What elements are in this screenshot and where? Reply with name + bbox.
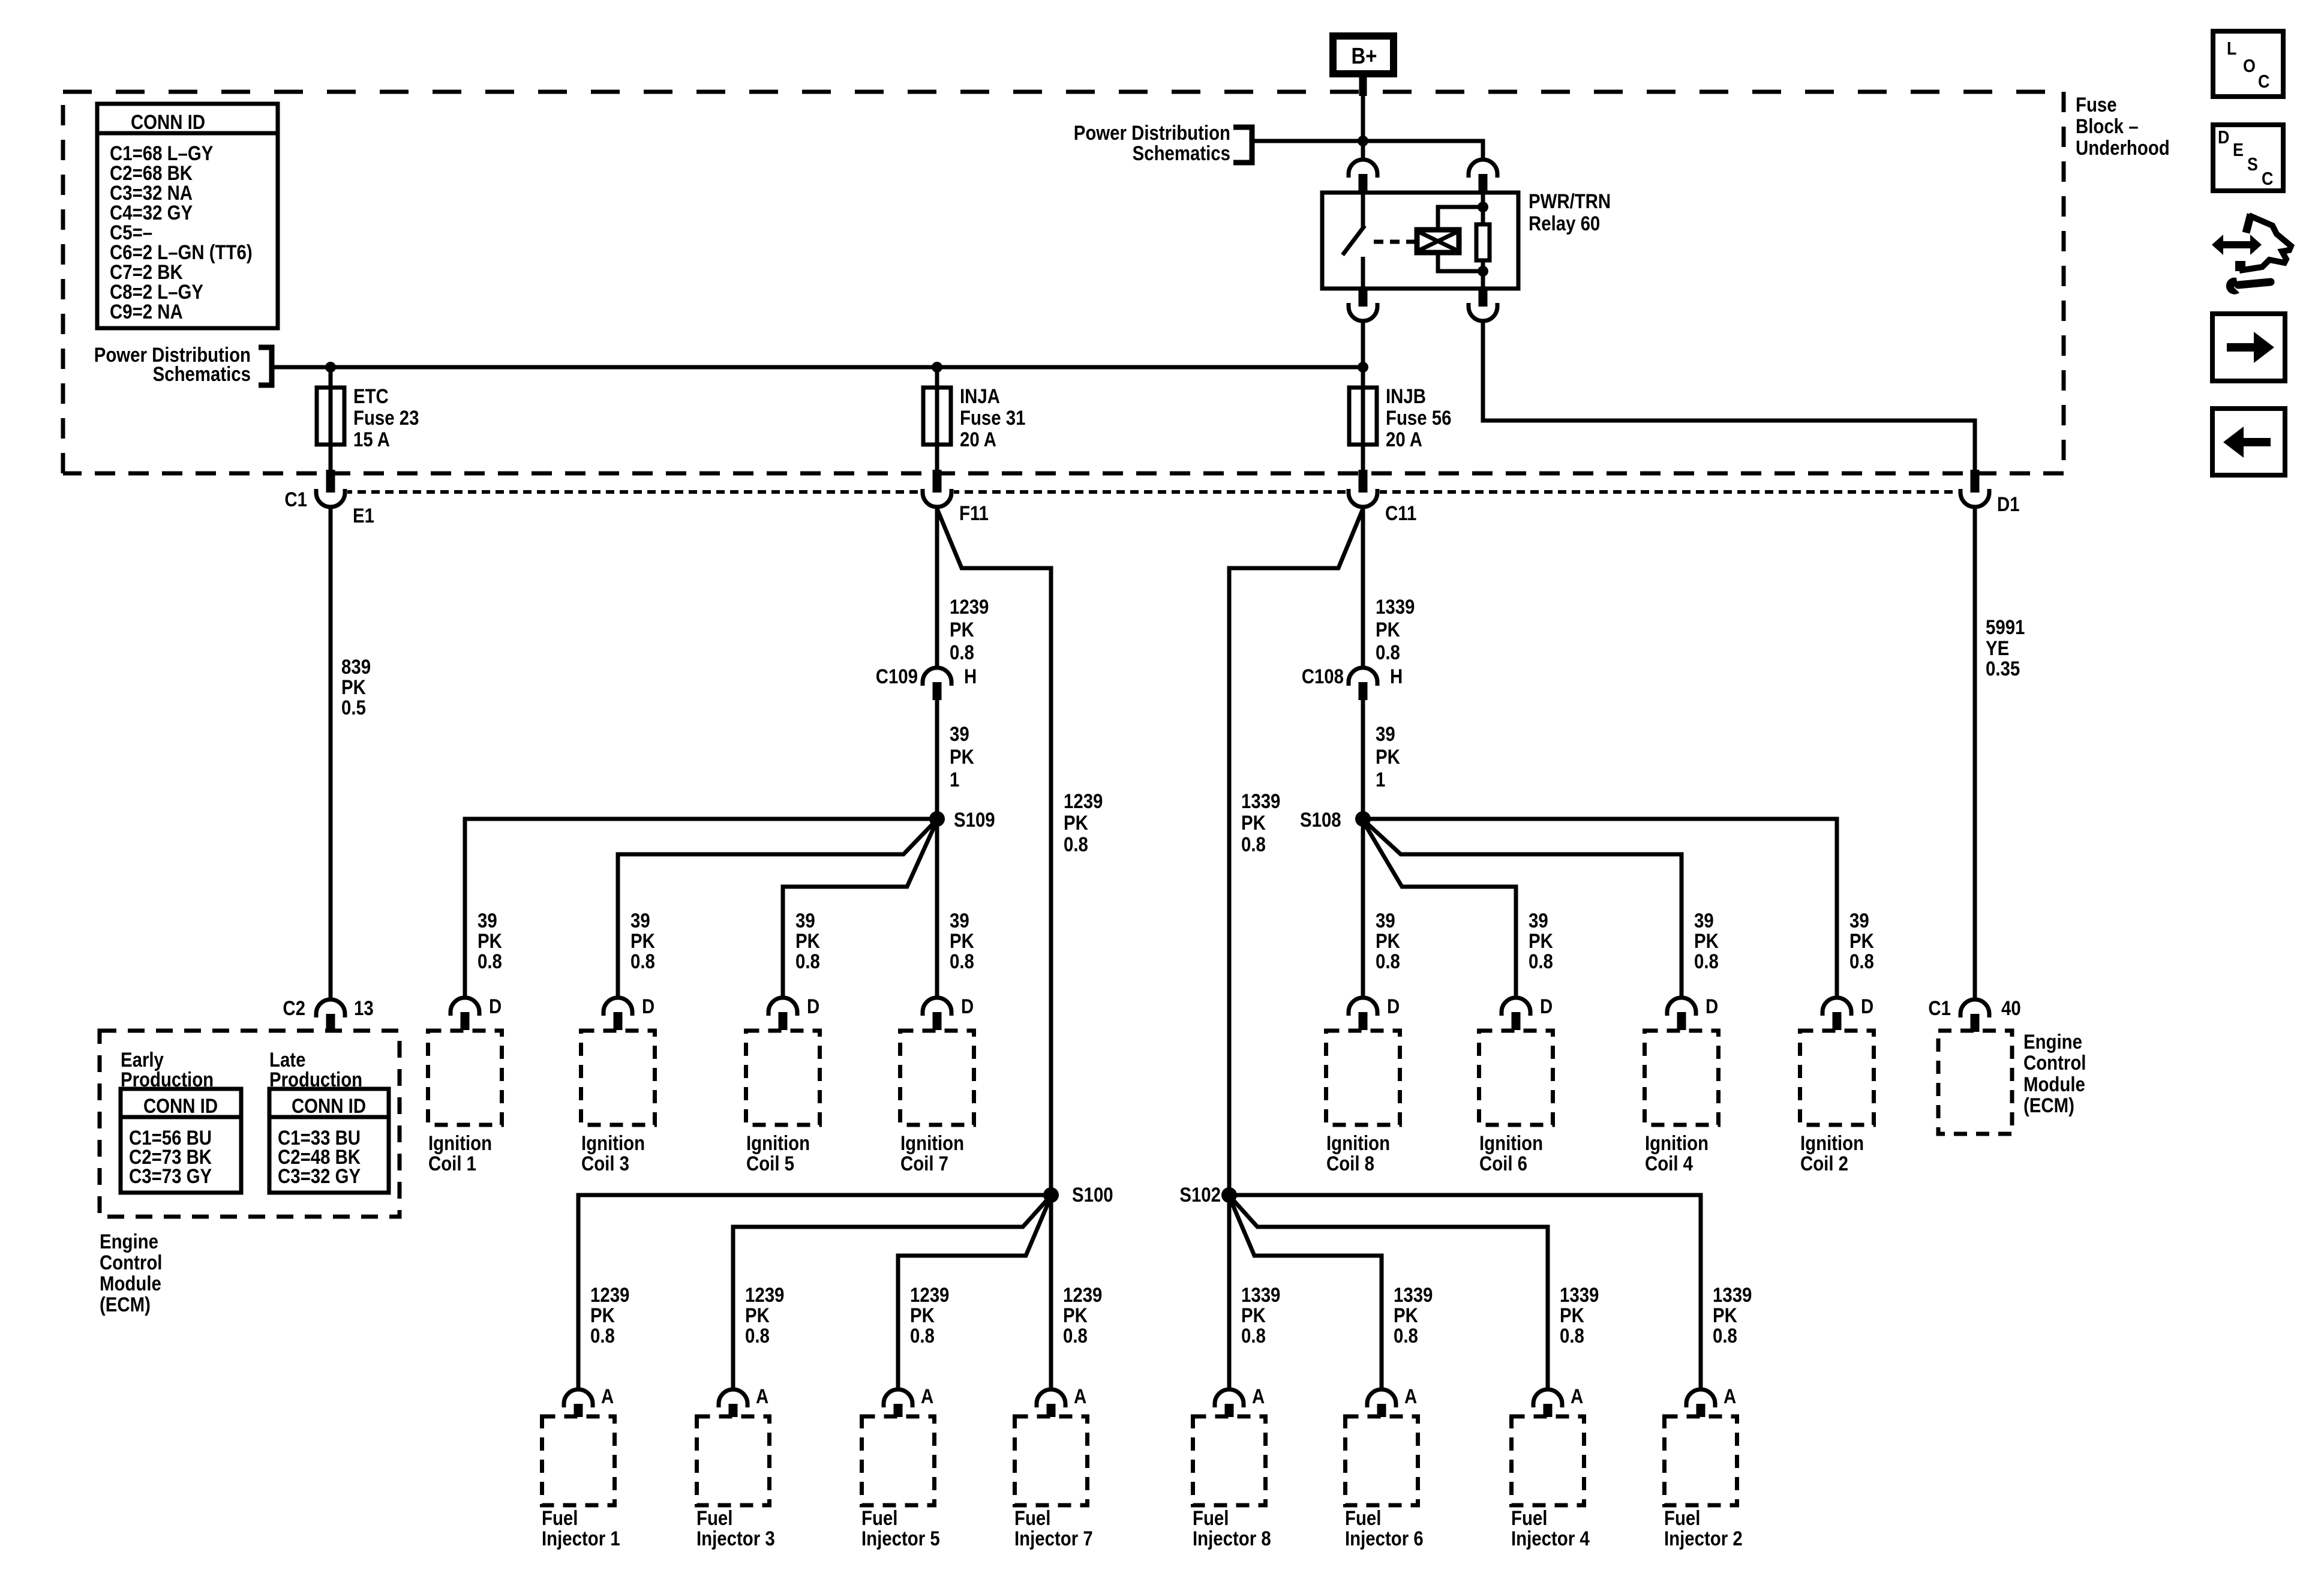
wire 39 PK 1 C109 to S109 [935,700,939,819]
connector relay pin bottom-left [1349,289,1377,321]
svg-text:D: D [807,995,819,1018]
icon arrow left box [2212,409,2285,475]
svg-text:D: D [1706,995,1718,1018]
connector C108 pin H [1349,668,1377,700]
ignition coil 4 [1645,1031,1719,1125]
wire S109 to ignition coil 7 [935,819,939,998]
harness connector dotted line [316,490,1960,494]
svg-text:Ignition: Ignition [1479,1131,1543,1155]
connector C11 white backing [1346,485,1380,509]
svg-text:Coil 4: Coil 4 [1645,1152,1693,1175]
svg-text:39: 39 [950,722,969,746]
svg-text:39: 39 [1376,909,1395,932]
fuel injector 3 [697,1416,770,1505]
svg-text:5991: 5991 [1986,616,2025,639]
resistor (relay suppression) [1476,193,1490,289]
svg-text:0.8: 0.8 [950,641,974,664]
wire S100 to fuel injector 3 [733,1197,1050,1389]
svg-text:Coil 7: Coil 7 [900,1152,948,1175]
connector fuel injector 4 pin A [1533,1389,1562,1417]
wire coil to resistor bottom [1438,253,1483,271]
icon LOC box [2213,31,2283,97]
fuel injector 4 [1512,1416,1584,1505]
engine control module (ECM) dashed box [100,1031,400,1217]
svg-text:Schematics: Schematics [153,362,251,386]
wire 1339 PK 0.8 C11 to C108 [1361,507,1365,668]
wire S100 to fuel injector 5 [898,1199,1050,1389]
svg-text:Power Distribution: Power Distribution [1074,121,1230,145]
svg-text:Fuse 31: Fuse 31 [960,406,1025,430]
svg-text:1239: 1239 [910,1283,949,1307]
svg-text:Fuse 56: Fuse 56 [1386,406,1451,430]
svg-text:Injector 2: Injector 2 [1664,1527,1743,1550]
svg-text:0.8: 0.8 [1064,833,1088,856]
svg-text:Fuel: Fuel [1014,1506,1050,1530]
wire label 39 PK 0.8 coil 3 [630,909,655,973]
svg-text:PK: PK [1713,1304,1737,1327]
wire label 1339 PK 0.8 injector 8 [1241,1283,1280,1347]
svg-text:D: D [1387,995,1400,1018]
svg-text:Engine: Engine [100,1230,158,1253]
svg-text:Injector 6: Injector 6 [1345,1527,1424,1550]
svg-text:CONN ID: CONN ID [292,1094,366,1118]
svg-text:39: 39 [1529,909,1548,932]
svg-text:L: L [2227,38,2236,59]
svg-text:A: A [1252,1385,1265,1408]
wire 1239 PK 0.8 branch F11 to S100 [937,509,1051,1195]
svg-text:PK: PK [1694,929,1719,953]
relay coil [1417,230,1459,253]
icon wiring repair (arrow, connector, wrench) [2212,214,2291,295]
splice S108 [1355,811,1371,827]
svg-text:Ignition: Ignition [428,1131,492,1155]
svg-text:1339: 1339 [1241,789,1280,813]
svg-text:Coil 1: Coil 1 [428,1152,476,1175]
wire S102 to fuel injector 6 [1230,1199,1382,1389]
svg-text:0.8: 0.8 [1713,1324,1737,1347]
svg-text:0.8: 0.8 [1241,1324,1266,1347]
wire S102 to fuel injector 4 [1230,1197,1548,1389]
connector fuel injector 6 pin A [1367,1389,1396,1417]
svg-text:E: E [2233,140,2244,160]
label Engine Control Module (ECM) left [100,1230,162,1316]
wire 1239 PK 0.8 F11 to C109 [935,507,939,668]
svg-text:Coil 2: Coil 2 [1800,1152,1848,1175]
svg-text:D: D [2218,127,2229,148]
svg-text:1339: 1339 [1713,1283,1752,1307]
svg-text:C2: C2 [283,996,305,1020]
svg-text:S: S [2247,154,2258,175]
ignition coil 6 [1479,1031,1553,1125]
wire S102 to fuel injector 8 [1227,1195,1232,1389]
wire label 39 PK 0.8 coil 4 [1694,909,1719,973]
wire 39 PK 1 C108 to S108 [1361,700,1365,819]
splice S100 [1043,1187,1059,1203]
svg-text:PK: PK [1394,1304,1418,1327]
svg-text:Ignition: Ignition [746,1131,810,1155]
connector C1 pin E1 [316,470,345,507]
svg-text:PK: PK [1376,929,1400,953]
connector C2 pin 13 [329,998,333,999]
wire S102 to fuel injector 2 [1229,1195,1701,1389]
svg-text:20 A: 20 A [960,428,996,451]
relay switch [1343,193,1365,289]
svg-text:Coil 5: Coil 5 [746,1152,794,1175]
wire label 39 PK 0.8 coil 1 [478,909,502,973]
svg-text:PK: PK [1064,811,1088,834]
svg-text:C: C [2258,71,2269,92]
svg-text:S108: S108 [1300,808,1341,831]
svg-text:PK: PK [1560,1304,1584,1327]
svg-text:39: 39 [950,909,969,932]
wire S100 to fuel injector 1 [578,1195,1051,1389]
svg-text:Engine: Engine [2023,1030,2082,1053]
svg-text:Coil 6: Coil 6 [1479,1152,1527,1175]
svg-text:1: 1 [950,768,959,791]
svg-text:C9=2 NA: C9=2 NA [110,300,183,323]
svg-text:1339: 1339 [1376,595,1415,619]
svg-text:Ignition: Ignition [1645,1131,1709,1155]
wire bus to ETC fuse [329,367,333,474]
svg-text:A: A [1074,1385,1086,1408]
svg-text:15 A: 15 A [353,428,390,451]
svg-text:Coil 8: Coil 8 [1326,1152,1374,1175]
svg-text:Fuel: Fuel [1345,1506,1381,1530]
svg-text:39: 39 [1376,722,1395,746]
connector C1 pin 40 [1960,999,1989,1032]
wire label 39 PK 0.8 coil 8 [1376,909,1400,973]
CONN ID table early production [121,1089,241,1193]
ignition coil 1 [428,1031,502,1125]
svg-text:0.8: 0.8 [1376,641,1400,664]
wire label 39 PK 0.8 coil 5 [795,909,820,973]
svg-text:C: C [2262,169,2273,189]
svg-text:Ignition: Ignition [1326,1131,1390,1155]
engine control module (ECM) right dashed box [1938,1031,2012,1134]
wire coil to resistor top [1438,207,1483,230]
svg-text:1239: 1239 [1063,1283,1102,1307]
wire junction to relay pin [1361,141,1365,161]
fuel injector 7 [1015,1416,1088,1505]
wire S109 to ignition coil 1 [465,819,937,998]
connector pin F11 [923,470,951,507]
wire power bus [272,365,1363,370]
wire S108 to ignition coil 4 [1364,821,1682,998]
svg-text:H: H [1390,665,1403,688]
label Fuse Block Underhood [2076,93,2170,160]
fuse block underhood dashed border [63,90,2064,94]
connector ignition coil 6 pin D [1502,998,1530,1030]
off-page reference Power Distribution Schematics (left) [94,343,272,386]
svg-text:0.35: 0.35 [1986,657,2020,680]
connector fuel injector 7 pin A [1037,1389,1065,1417]
junction node bus/relay [1358,362,1368,373]
svg-text:Injector 1: Injector 1 [542,1527,620,1550]
junction node coil/resistor top [1478,202,1488,212]
wire S108 to ignition coil 2 [1363,819,1837,998]
svg-text:Control: Control [100,1251,162,1274]
wire S109 to ignition coil 5 [783,823,936,998]
svg-text:E1: E1 [353,504,374,527]
wire top feed to relay [1253,141,1483,158]
connector C1E1 white backing [314,485,347,509]
svg-text:C109: C109 [876,665,918,688]
svg-text:D: D [1540,995,1553,1018]
relay PWR/TRN Relay 60 box [1322,193,1518,289]
wire label 39 PK 0.8 coil 2 [1849,909,1874,973]
wire S108 to ignition coil 6 [1364,823,1516,998]
svg-text:Fuse: Fuse [2076,93,2117,116]
relay actuator dashed link [1374,240,1415,244]
connector ignition coil 1 pin D [451,998,479,1030]
wire bus to INJA fuse [935,367,939,474]
svg-text:Control: Control [2023,1051,2086,1074]
svg-text:A: A [601,1385,614,1408]
wire label 1239 PK 0.8 injector 7 [1063,1283,1102,1347]
svg-text:Fuel: Fuel [1511,1506,1547,1530]
fuel injector 8 [1193,1416,1266,1505]
svg-text:S102: S102 [1179,1183,1221,1206]
svg-text:39: 39 [795,909,815,932]
svg-text:20 A: 20 A [1386,428,1422,451]
svg-text:A: A [1571,1385,1583,1408]
svg-text:PK: PK [745,1304,770,1327]
svg-text:C108: C108 [1302,665,1344,688]
svg-text:Fuel: Fuel [542,1506,578,1530]
svg-text:D: D [642,995,654,1018]
svg-text:PK: PK [1376,745,1400,769]
svg-text:(ECM): (ECM) [2023,1094,2074,1117]
svg-text:39: 39 [1849,909,1869,932]
svg-text:PK: PK [1063,1304,1088,1327]
off-page reference Power Distribution Schematics (top) [1074,121,1252,165]
svg-text:D: D [489,995,502,1018]
svg-text:A: A [1724,1385,1736,1408]
svg-text:PK: PK [478,929,502,953]
svg-text:H: H [964,665,977,688]
svg-text:INJB: INJB [1386,385,1426,408]
svg-text:0.8: 0.8 [745,1324,770,1347]
label PWR/TRN Relay 60 [1529,190,1611,235]
svg-text:Module: Module [2023,1073,2085,1096]
svg-text:0.8: 0.8 [1376,950,1400,973]
svg-text:PWR/TRN: PWR/TRN [1529,190,1611,213]
svg-text:C3=73 GY: C3=73 GY [129,1164,212,1188]
fuel injector 5 [862,1416,935,1505]
connector ignition coil 2 pin D [1822,998,1851,1030]
CONN ID table (fuse block) [97,104,278,328]
connector C109 pin H [923,668,951,700]
battery feed B+ [1333,36,1394,74]
connector ignition coil 4 pin D [1667,998,1696,1030]
svg-text:1239: 1239 [950,595,989,619]
icon arrow right box [2212,314,2285,381]
svg-text:Injector 8: Injector 8 [1193,1527,1271,1550]
svg-text:39: 39 [1694,909,1714,932]
wire label 1239 PK 0.8 injector 3 [745,1283,784,1347]
wire label 1339 PK 0.8 injector 2 [1713,1283,1752,1347]
wire label 1239 PK 0.8 injector 5 [910,1283,949,1347]
svg-text:Relay 60: Relay 60 [1529,212,1600,235]
svg-text:C11: C11 [1385,502,1416,525]
icon DESC box [2213,125,2283,191]
wire label 1239 PK 0.8 injector 1 [590,1283,629,1347]
svg-text:D1: D1 [1997,493,2020,516]
svg-text:PK: PK [1241,1304,1266,1327]
svg-text:Fuel: Fuel [696,1506,732,1530]
svg-text:A: A [756,1385,768,1408]
fuse INJB Fuse 56 20A [1349,388,1377,445]
CONN ID table late production [269,1089,389,1193]
connector ignition coil 5 pin D [768,998,797,1030]
svg-text:Coil 3: Coil 3 [581,1152,629,1175]
connector ignition coil 8 pin D [1349,998,1377,1030]
ignition coil 7 [900,1031,974,1125]
svg-text:0.8: 0.8 [1560,1324,1584,1347]
svg-text:Schematics: Schematics [1133,142,1230,165]
svg-text:0.5: 0.5 [341,696,366,719]
svg-text:S100: S100 [1072,1183,1113,1206]
svg-text:O: O [2243,56,2256,76]
svg-text:0.8: 0.8 [795,950,820,973]
svg-text:S109: S109 [954,808,995,831]
fuel injector 1 [542,1416,615,1505]
ignition coil 2 [1800,1031,1874,1125]
junction node B+/feed [1358,136,1368,146]
connector relay pin bottom-right [1469,289,1497,321]
wire S100 to fuel injector 7 [1049,1195,1053,1389]
svg-text:PK: PK [630,929,655,953]
svg-text:PK: PK [590,1304,615,1327]
svg-text:A: A [921,1385,933,1408]
svg-text:CONN ID: CONN ID [131,110,205,134]
fuel injector 6 [1346,1416,1418,1505]
svg-text:1339: 1339 [1394,1283,1433,1307]
svg-text:Injector 3: Injector 3 [696,1527,775,1550]
svg-text:PK: PK [1241,811,1266,834]
svg-text:PK: PK [950,745,974,769]
svg-text:1339: 1339 [1241,1283,1280,1307]
connector ignition coil 7 pin D [923,998,951,1030]
svg-text:PK: PK [910,1304,935,1327]
connector fuel injector 5 pin A [884,1389,912,1417]
wire relay to INJB fuse [1361,321,1365,474]
svg-text:0.8: 0.8 [1394,1324,1418,1347]
junction node bus/ETC fuse [325,362,336,373]
svg-text:0.8: 0.8 [1849,950,1874,973]
svg-text:0.8: 0.8 [950,950,974,973]
svg-text:1239: 1239 [1064,789,1103,813]
svg-text:(ECM): (ECM) [100,1293,151,1316]
splice S109 [929,811,945,827]
svg-text:CONN ID: CONN ID [143,1094,218,1118]
label Engine Control Module (ECM) right [2023,1030,2086,1117]
svg-text:Injector 5: Injector 5 [861,1527,940,1550]
svg-text:39: 39 [478,909,497,932]
svg-text:PK: PK [1529,929,1553,953]
fuse ETC Fuse 23 15A [317,388,344,445]
svg-text:PK: PK [795,929,820,953]
svg-text:C3=32 GY: C3=32 GY [278,1164,361,1188]
svg-text:PK: PK [950,929,974,953]
wire 839 PK 0.5 [329,507,333,998]
svg-text:0.8: 0.8 [1694,950,1719,973]
connector fuel injector 8 pin A [1215,1389,1244,1417]
wire S108 to ignition coil 8 [1361,819,1365,998]
svg-text:Underhood: Underhood [2076,136,2170,160]
svg-text:PK: PK [341,676,366,699]
svg-text:D: D [961,995,974,1018]
svg-text:Injector 7: Injector 7 [1014,1527,1093,1550]
fuel injector 2 [1665,1416,1737,1505]
svg-text:INJA: INJA [960,385,1000,408]
svg-text:C1: C1 [284,488,307,511]
ignition coil 8 [1326,1031,1400,1125]
wire B+ down to junction [1359,77,1367,96]
svg-text:Injector 4: Injector 4 [1511,1527,1590,1550]
svg-text:ETC: ETC [353,385,389,408]
svg-text:PK: PK [1849,929,1874,953]
junction node bus/INJA fuse [932,362,942,373]
svg-text:39: 39 [630,909,650,932]
svg-text:1239: 1239 [745,1283,784,1307]
svg-text:D: D [1861,995,1873,1018]
connector pin C11 [1349,470,1377,507]
svg-text:0.8: 0.8 [1063,1324,1088,1347]
wire relay bottom-right to D1 [1483,321,1975,474]
svg-text:Ignition: Ignition [581,1131,645,1155]
svg-text:Fuel: Fuel [861,1506,897,1530]
svg-text:0.8: 0.8 [478,950,502,973]
wire label 39 PK 0.8 coil 6 [1529,909,1553,973]
connector F11 white backing [920,485,954,509]
svg-text:Fuel: Fuel [1664,1506,1700,1530]
connector D1 white backing [1958,485,1992,509]
svg-text:Module: Module [100,1272,161,1295]
svg-text:Ignition: Ignition [900,1131,964,1155]
fuse INJA Fuse 31 20A [923,388,951,445]
wire label 39 PK 0.8 coil 7 [950,909,974,973]
svg-text:0.8: 0.8 [590,1324,615,1347]
svg-text:0.8: 0.8 [1529,950,1553,973]
svg-text:F11: F11 [959,502,989,525]
wire 1339 PK 0.8 branch C11 to S102 [1229,509,1363,1195]
ignition coil 3 [581,1031,655,1125]
svg-text:0.8: 0.8 [630,950,655,973]
wire label 1339 PK 0.8 injector 4 [1560,1283,1599,1347]
svg-text:13: 13 [354,996,374,1020]
svg-text:B+: B+ [1352,43,1377,69]
wire S109 to ignition coil 3 [618,821,936,998]
svg-text:A: A [1404,1385,1417,1408]
svg-text:1339: 1339 [1560,1283,1599,1307]
connector pin D1 [1960,470,1989,507]
svg-text:40: 40 [2001,996,2021,1020]
connector relay pin top-right [1469,160,1497,192]
svg-text:PK: PK [950,618,974,641]
connector fuel injector 2 pin A [1686,1389,1715,1417]
svg-text:YE: YE [1986,637,2009,660]
svg-text:Block –: Block – [2076,115,2139,138]
connector fuel injector 1 pin A [564,1389,593,1417]
svg-text:0.8: 0.8 [910,1324,935,1347]
wire label 1339 PK 0.8 injector 6 [1394,1283,1433,1347]
connector relay pin top-left [1349,160,1377,192]
svg-text:PK: PK [1376,618,1400,641]
svg-text:1239: 1239 [590,1283,629,1307]
svg-text:C1: C1 [1928,996,1951,1020]
ignition coil 5 [746,1031,820,1125]
